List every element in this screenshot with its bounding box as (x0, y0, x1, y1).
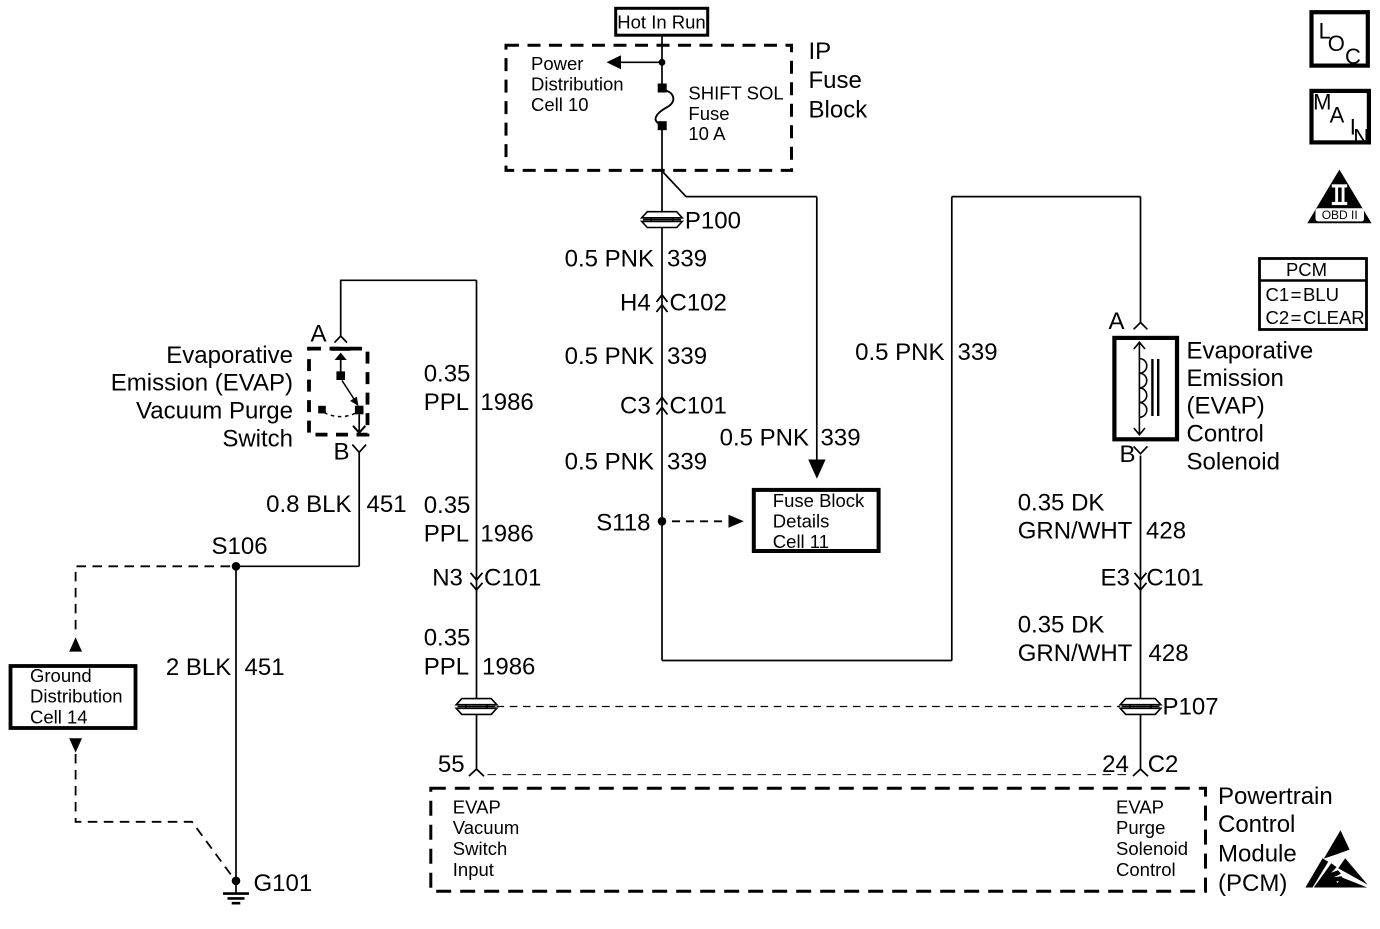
wire: branch diagonal to fuse block details arrow (662, 171, 817, 197)
svg-text:Control: Control (1218, 811, 1295, 838)
svg-text:1986: 1986 (480, 389, 533, 416)
svg-text:0.8 BLK: 0.8 BLK (266, 491, 351, 518)
pin B chevron of solenoid (1134, 446, 1148, 453)
connector C101 chevrons (N3) (471, 573, 483, 590)
switch SW internals: left contact square (318, 406, 326, 414)
svg-text:C101: C101 (670, 393, 727, 420)
box: PCM connector legend (1260, 259, 1367, 330)
node: splice S106 (232, 562, 241, 571)
svg-text:OBD II: OBD II (1322, 208, 1358, 222)
svg-text:0.35 DK: 0.35 DK (1018, 490, 1105, 517)
ground G101 symbol bars (223, 894, 249, 904)
svg-text:Module: Module (1218, 841, 1297, 868)
wire: dashed ground distribution reference from S106 (76, 566, 230, 636)
switch SW internals: fixed contact bar (331, 347, 351, 351)
wire: dashed grommet tie line P107 (497, 706, 1121, 708)
svg-text:Details: Details (773, 510, 830, 531)
wire: solenoid pin B down to P107 grommet (1140, 456, 1142, 699)
svg-text:Block: Block (809, 97, 869, 124)
svg-text:Solenoid: Solenoid (1116, 838, 1188, 859)
svg-text:B: B (334, 439, 350, 466)
wire: P100 down to S118 and bottom elbow (661, 228, 663, 661)
svg-text:O: O (1328, 31, 1345, 56)
svg-text:Fuse: Fuse (688, 103, 729, 124)
wire: S106 down to G101 (235, 566, 237, 879)
connector C102 chevrons (H4) (657, 295, 668, 312)
svg-text:PCM: PCM (1286, 259, 1327, 280)
svg-text:Evaporative: Evaporative (1187, 338, 1314, 365)
svg-text:GRN/WHT: GRN/WHT (1018, 640, 1133, 667)
switch SW internals: dotted throw arc (324, 413, 356, 417)
svg-text:Purge: Purge (1116, 817, 1165, 838)
switch SW internals: pivot square (336, 371, 345, 380)
svg-text:Emission (EVAP): Emission (EVAP) (111, 370, 293, 397)
svg-text:EVAP: EVAP (453, 796, 501, 817)
logo: ESD sensitive device symbol (1305, 830, 1367, 887)
arrowhead into Fuse Block Details (808, 460, 825, 479)
box: Ground Distribution Cell 14 (11, 666, 136, 728)
wire: bottom horizontal run to right riser (662, 660, 952, 662)
wire: arrow line to Power Distribution (620, 61, 662, 63)
wire: dashed ground distribution reference to G101 (76, 754, 233, 878)
wire: switch pin B down to S106 level (358, 452, 360, 566)
svg-text:0.35: 0.35 (424, 625, 471, 652)
svg-text:10 A: 10 A (688, 123, 726, 144)
pin 55 chevron of PCM (469, 769, 484, 776)
svg-text:GRN/WHT: GRN/WHT (1018, 518, 1133, 545)
svg-text:Control: Control (1116, 859, 1176, 880)
svg-text:H4: H4 (620, 290, 651, 317)
svg-text:0.5 PNK: 0.5 PNK (720, 425, 809, 452)
pin A chevron of solenoid (1134, 323, 1148, 330)
svg-text:Emission: Emission (1187, 365, 1284, 392)
svg-text:B: B (1120, 441, 1136, 468)
grommet on PPL wire (456, 699, 497, 715)
svg-text:P100: P100 (685, 208, 741, 235)
svg-text:Distribution: Distribution (30, 686, 123, 707)
svg-text:A: A (1330, 103, 1345, 128)
svg-text:24: 24 (1102, 751, 1129, 778)
box: Powertrain Control Module PCM (dashed) (431, 788, 1206, 891)
solenoid L1 EVAP: top open arrowhead (1134, 342, 1145, 349)
svg-text:E3: E3 (1101, 565, 1130, 592)
svg-text:Control: Control (1187, 421, 1264, 448)
svg-text:Powertrain: Powertrain (1218, 783, 1333, 810)
DASHED-REFS (76, 521, 1133, 877)
svg-text:Cell 10: Cell 10 (531, 94, 589, 115)
svg-text:SHIFT SOL: SHIFT SOL (688, 83, 783, 104)
wire: PPL grommet to pin 55 (476, 715, 478, 770)
svg-text:C1=BLU: C1=BLU (1266, 284, 1339, 305)
svg-text:Distribution: Distribution (531, 73, 624, 94)
label LOC letters (1319, 18, 1361, 69)
svg-text:PPL: PPL (424, 654, 469, 681)
switch SW internals: blade line (342, 381, 355, 401)
svg-text:428: 428 (1149, 640, 1189, 667)
switch SW internals: bottom contact square (355, 406, 364, 415)
svg-text:0.5 PNK: 0.5 PNK (565, 246, 654, 273)
svg-text:Fuse: Fuse (809, 67, 862, 94)
svg-text:0.5 PNK: 0.5 PNK (565, 449, 654, 476)
pin 24 chevron of PCM (1133, 769, 1148, 776)
box: IP Fuse Block (dashed) (506, 45, 792, 170)
ARROWHEADS (69, 55, 825, 752)
fuse F1 SHIFT SOL: top terminal square (658, 84, 667, 93)
switch SW internals: down open arrowhead (353, 426, 365, 433)
svg-text:Cell 11: Cell 11 (773, 531, 829, 552)
ground G101 symbol stem (235, 881, 237, 893)
svg-text:C2=CLEAR: C2=CLEAR (1266, 307, 1365, 328)
wire: fuse to P100 grommet (661, 130, 663, 212)
svg-text:PPL: PPL (424, 521, 469, 548)
svg-text:Solenoid: Solenoid (1187, 449, 1280, 476)
node: junction above fuse (659, 59, 666, 66)
svg-text:C: C (1345, 44, 1361, 69)
divider PCM legend (1260, 279, 1367, 282)
svg-text:1986: 1986 (482, 654, 535, 681)
svg-text:Ground: Ground (30, 665, 92, 686)
logo: OBD II triangle (1307, 170, 1371, 224)
wire: dashed PCM pin tie line (488, 774, 1133, 776)
svg-text:0.35: 0.35 (424, 361, 471, 388)
wire: PPL vertical down to grommet (476, 280, 478, 698)
svg-text:339: 339 (667, 449, 707, 476)
svg-text:2 BLK: 2 BLK (166, 654, 231, 681)
wire: P107 grommet to pin 24 (1140, 715, 1142, 770)
svg-text:Switch: Switch (222, 426, 293, 453)
solenoid L1 EVAP: core line 2 (1157, 359, 1159, 416)
svg-text:C2: C2 (1148, 751, 1179, 778)
box: LOC (1312, 12, 1368, 65)
switch SW internals: down arrow shaft (358, 414, 360, 431)
svg-text:Evaporative: Evaporative (166, 342, 293, 369)
connector C101 chevrons (E3) (1135, 573, 1147, 590)
svg-text:IP: IP (809, 38, 832, 65)
grommet P100 (642, 212, 683, 228)
svg-text:C101: C101 (1146, 565, 1203, 592)
svg-text:Power: Power (531, 53, 583, 74)
label MAIN letters (1313, 90, 1369, 150)
svg-text:Switch: Switch (453, 838, 508, 859)
node: splice S118 (658, 517, 667, 526)
svg-text:339: 339 (958, 339, 998, 366)
label component: EVAP vacuum purge switch name (111, 342, 293, 453)
svg-text:0.35: 0.35 (424, 492, 471, 519)
arrowhead to Power Distribution (607, 55, 622, 69)
pin A chevron of switch (335, 336, 348, 343)
svg-text:(EVAP): (EVAP) (1187, 393, 1265, 420)
solenoid L1 EVAP: plunger arrow line (1138, 343, 1140, 435)
box: Hot In Run (616, 8, 708, 35)
svg-text:C102: C102 (670, 290, 727, 317)
switch SW internals: blade arrowhead (350, 397, 358, 406)
switch SW internals: up arrowhead (335, 353, 347, 360)
pin B chevron of switch (352, 445, 366, 453)
box: Fuse Block Details Cell 11 (754, 490, 879, 551)
svg-text:451: 451 (367, 491, 407, 518)
fuse F1 SHIFT SOL: bottom terminal square (658, 121, 667, 130)
svg-text:428: 428 (1146, 518, 1186, 545)
svg-text:PPL: PPL (424, 389, 469, 416)
wire: top right horizontal to solenoid (952, 196, 1141, 198)
wire: switch pin A riser and top horizontal (341, 280, 477, 336)
svg-text:0.5 PNK: 0.5 PNK (565, 343, 654, 370)
svg-text:0.5 PNK: 0.5 PNK (855, 339, 944, 366)
svg-text:Fuse Block: Fuse Block (773, 490, 865, 511)
svg-text:A: A (1109, 308, 1125, 335)
arrowhead ground ref down (69, 738, 82, 752)
solenoid L1 EVAP: body box (1114, 338, 1177, 439)
wire: branch vertical to arrow (816, 197, 818, 461)
connector C101 chevrons (C3) (657, 397, 668, 414)
svg-text:S106: S106 (212, 533, 268, 560)
svg-text:Vacuum: Vacuum (453, 817, 520, 838)
wire: S106 horizontal (236, 565, 359, 567)
box: EVAP vacuum purge switch (dashed) (309, 349, 368, 435)
svg-text:G101: G101 (254, 870, 313, 897)
arrowhead ground ref up (69, 637, 82, 651)
box: MAIN (1312, 91, 1369, 142)
svg-text:Vacuum Purge: Vacuum Purge (136, 398, 293, 425)
fuse F1 SHIFT SOL: S-curve element (656, 90, 674, 125)
wire: Hot In Run feed down into IP fuse block (661, 37, 663, 84)
svg-text:N: N (1353, 124, 1369, 149)
svg-text:339: 339 (667, 343, 707, 370)
wire: down to solenoid pin A (1140, 197, 1142, 323)
svg-text:Input: Input (453, 859, 494, 880)
svg-text:A: A (311, 321, 327, 348)
node: ground G101 junction (232, 877, 241, 886)
grommet P107 (1120, 699, 1161, 715)
svg-text:C101: C101 (484, 565, 541, 592)
svg-text:EVAP: EVAP (1116, 796, 1164, 817)
svg-text:P107: P107 (1163, 694, 1219, 721)
svg-text:C3: C3 (620, 393, 651, 420)
svg-text:Cell 14: Cell 14 (30, 706, 88, 727)
svg-text:55: 55 (438, 751, 465, 778)
svg-text:Hot In Run: Hot In Run (617, 11, 705, 32)
svg-text:451: 451 (245, 654, 285, 681)
arrowhead S118 dashed reference (729, 515, 744, 528)
wire: right riser up (951, 197, 953, 661)
svg-text:(PCM): (PCM) (1218, 870, 1287, 897)
svg-text:1986: 1986 (480, 521, 533, 548)
svg-text:0.35 DK: 0.35 DK (1018, 612, 1105, 639)
svg-text:S118: S118 (596, 510, 650, 537)
svg-text:339: 339 (821, 425, 861, 452)
switch SW internals: up arrow shaft (340, 360, 342, 377)
wire: dashed S118 reference arrow line (672, 520, 728, 522)
svg-text:N3: N3 (432, 565, 463, 592)
solenoid L1 EVAP: coil (1139, 359, 1146, 418)
svg-text:339: 339 (667, 246, 707, 273)
solenoid L1 EVAP: bottom open arrowhead (1134, 428, 1145, 435)
solenoid L1 EVAP: core line 1 (1151, 359, 1153, 416)
